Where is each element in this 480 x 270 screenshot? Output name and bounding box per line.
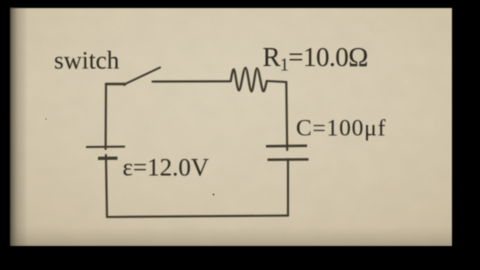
left edge shadow of photo [8,8,28,248]
capacitor C top plate [266,145,307,148]
svg-text:C=100μf: C=100μf [296,116,386,142]
pillarbox bar left [0,0,10,270]
svg-text:switch: switch [54,48,120,75]
wire: left vertical lower (battery bottom lead) [106,155,107,217]
wire: bottom return wire [107,216,288,217]
bottom edge shadow of photo [8,226,478,248]
wire: right vertical lower (capacitor bottom lead) [287,160,289,216]
switch S1 pivot contact dot [123,83,126,86]
battery B1 short (-) plate [98,157,118,160]
stray speck near bottom-left [45,118,47,120]
letterbox bar top [0,0,480,8]
wire: top-left stub into switch pivot [106,83,124,86]
wire: right vertical upper (capacitor top lead) [285,82,288,150]
battery B1 long (+) plate [86,146,125,148]
wire: switch contact to resistor [153,80,231,82]
switch S1 blade (open) [124,68,160,85]
letterbox bar bottom [0,246,480,270]
capacitor C bottom plate [268,158,309,161]
svg-text:R1=10.0Ω: R1=10.0Ω [263,42,368,75]
wire: left vertical (battery top lead), node TL corner to battery [105,84,108,149]
stray pencil speck left of bottom wire [212,193,214,195]
resistor R1 zigzag [231,68,267,92]
pillarbox bar right [452,0,480,270]
wire: resistor to top-right corner [267,81,287,82]
svg-text:ε=12.0V: ε=12.0V [123,155,209,182]
